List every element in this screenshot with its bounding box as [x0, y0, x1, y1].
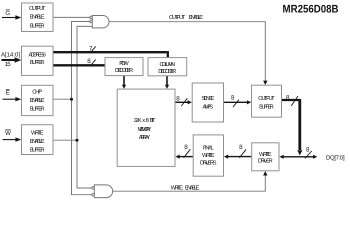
- svg-text:ENABLE: ENABLE: [30, 15, 45, 21]
- svg-text:7: 7: [89, 45, 93, 52]
- svg-text:E: E: [6, 90, 10, 97]
- svg-text:WRITE: WRITE: [259, 152, 272, 158]
- svg-text:OUTPUT: OUTPUT: [29, 5, 46, 12]
- svg-text:ENABLE: ENABLE: [30, 139, 45, 145]
- svg-text:CHIP: CHIP: [32, 89, 42, 96]
- svg-text:8: 8: [231, 94, 235, 101]
- svg-text:8: 8: [146, 117, 149, 124]
- svg-text:15: 15: [5, 61, 12, 68]
- svg-text:WRITE: WRITE: [202, 153, 215, 159]
- svg-text:MR256D08B: MR256D08B: [283, 4, 339, 16]
- svg-text:BUFFER: BUFFER: [30, 60, 45, 66]
- svg-text:BUFFER: BUFFER: [30, 106, 45, 112]
- svg-text:8: 8: [184, 144, 188, 151]
- svg-text:DRIVERS: DRIVERS: [200, 159, 217, 166]
- svg-text:ADDRESS: ADDRESS: [28, 51, 46, 58]
- svg-text:DECODER: DECODER: [158, 68, 176, 75]
- svg-text:WRITE: WRITE: [31, 131, 44, 137]
- svg-text:COLUMN: COLUMN: [160, 61, 176, 68]
- svg-text:G: G: [5, 10, 10, 17]
- svg-text:DRIVER: DRIVER: [258, 158, 273, 164]
- svg-text:ARRAY: ARRAY: [139, 135, 151, 141]
- svg-text:FINAL: FINAL: [203, 146, 215, 152]
- svg-text:32K: 32K: [134, 117, 142, 124]
- svg-text:WRITE: WRITE: [171, 185, 184, 191]
- svg-text:8: 8: [286, 95, 290, 102]
- svg-text:ENABLE: ENABLE: [189, 15, 204, 21]
- svg-text:OUTPUT: OUTPUT: [169, 14, 186, 21]
- svg-text:AMPS: AMPS: [203, 104, 214, 111]
- svg-text:DECODER: DECODER: [115, 67, 133, 74]
- svg-text:BUFFER: BUFFER: [259, 105, 274, 111]
- svg-text:ROW: ROW: [119, 60, 129, 67]
- svg-text:SENSE: SENSE: [201, 95, 214, 102]
- svg-text:W: W: [5, 130, 11, 137]
- svg-text:8: 8: [239, 144, 243, 151]
- svg-text:ENABLE: ENABLE: [185, 185, 200, 191]
- svg-text:8: 8: [176, 95, 180, 102]
- svg-text:DQ[7:0]: DQ[7:0]: [326, 154, 345, 161]
- svg-text:OUTPUT: OUTPUT: [258, 95, 275, 102]
- svg-text:A[14:0]: A[14:0]: [1, 51, 20, 58]
- svg-text:BUFFER: BUFFER: [30, 147, 45, 153]
- svg-text:ENABLE: ENABLE: [30, 98, 45, 104]
- svg-text:BUFFER: BUFFER: [30, 23, 45, 29]
- svg-text:MEMORY: MEMORY: [138, 126, 152, 133]
- svg-text:8: 8: [306, 147, 310, 154]
- svg-text:BIT: BIT: [150, 118, 156, 124]
- svg-text:8: 8: [87, 58, 91, 65]
